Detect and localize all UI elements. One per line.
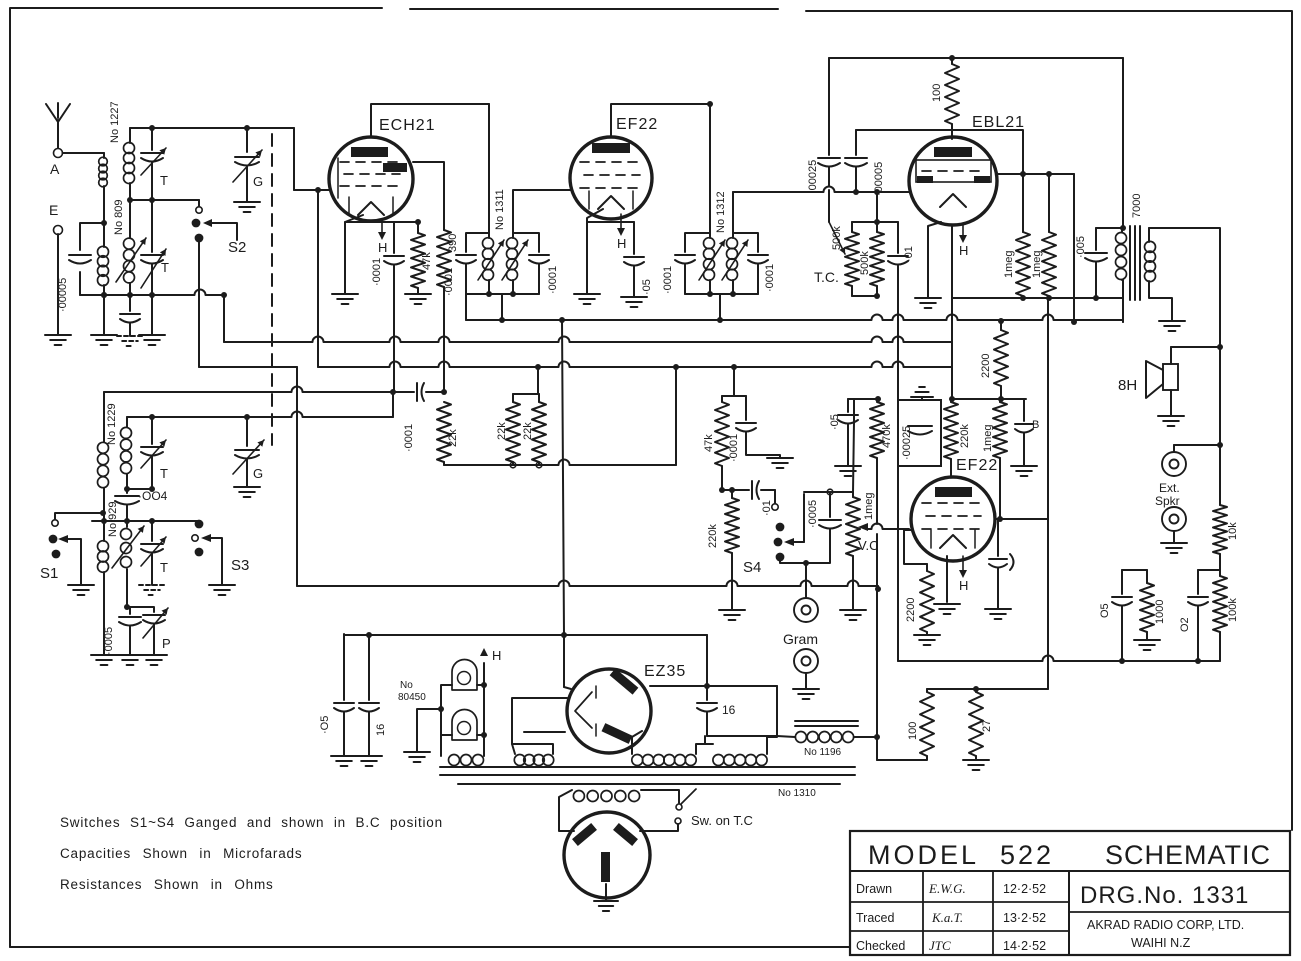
svg-text:G: G xyxy=(253,466,263,481)
bracket 500k tops xyxy=(852,221,898,223)
bus B+ y=342 xyxy=(223,295,225,342)
VC wiper arrow xyxy=(858,523,868,531)
svg-text:EF22: EF22 xyxy=(956,457,998,474)
svg-text:No 1312: No 1312 xyxy=(715,191,727,233)
svg-text:DRG.No. 1331: DRG.No. 1331 xyxy=(1080,882,1249,909)
IF No1311 primary coil (variable) xyxy=(483,238,494,249)
pilot lamp 1 xyxy=(452,660,477,691)
svg-text:O5: O5 xyxy=(1099,603,1111,618)
ground E xyxy=(45,334,71,336)
svg-text:EF22: EF22 xyxy=(616,116,658,133)
resistor 100 dial xyxy=(926,689,928,692)
resistor 390 (osc anode) xyxy=(413,162,444,230)
switch S3 contact top xyxy=(195,520,204,529)
EZ35 plates xyxy=(610,668,639,694)
svg-text:T.C.: T.C. xyxy=(814,269,839,285)
svg-text:AKRAD RADIO CORP, LTD.: AKRAD RADIO CORP, LTD. xyxy=(1087,918,1244,932)
resistor 2200 screen xyxy=(1000,323,1002,330)
ground 47k xyxy=(405,293,431,295)
EF22 cathode xyxy=(587,209,603,294)
svg-text:47k: 47k xyxy=(421,252,433,270)
capacitor 16 filter xyxy=(368,634,370,700)
capacitor .00025 grid coupling xyxy=(828,58,830,155)
svg-text:·0001: ·0001 xyxy=(371,258,383,286)
svg-text:2200: 2200 xyxy=(905,598,917,622)
svg-text:·0001: ·0001 xyxy=(662,266,674,294)
coil No1227 secondary xyxy=(129,128,131,143)
svg-text:S1: S1 xyxy=(40,565,58,582)
svg-text:ECH21: ECH21 xyxy=(379,117,436,134)
switch S1 wire xyxy=(55,513,103,519)
svg-text:8H: 8H xyxy=(1118,377,1137,394)
trimmer T stem (lower) xyxy=(151,417,153,444)
IF No1312 secondary coil (variable) xyxy=(727,238,738,249)
ground S3 xyxy=(209,584,235,586)
IF No1312 left capacitor .0001 xyxy=(685,233,710,252)
bracket y=399 output stage tops xyxy=(952,398,1026,400)
ground 1000 xyxy=(1134,639,1160,641)
capacitor .0005 (P pad) xyxy=(124,604,130,610)
wire oscillator down x=297 xyxy=(296,367,298,586)
plug earth ground xyxy=(605,884,607,901)
wire No1312 secondary to EBL21 grid xyxy=(732,192,734,233)
capacitor .05 EF22 xyxy=(587,221,634,223)
output transformer core xyxy=(1129,226,1131,300)
EZ35 plate feed left xyxy=(563,635,565,687)
capacitor .05 filter xyxy=(343,634,345,700)
bracket 500k bottoms xyxy=(852,295,877,297)
tube ECH21 xyxy=(329,137,413,221)
trimmer capacitor G (osc) xyxy=(235,156,259,158)
capacitor .00005 EBL21 xyxy=(855,130,857,155)
resistor 220k output grid xyxy=(950,399,952,402)
svg-text:Drawn: Drawn xyxy=(856,882,892,896)
switch S2 selector arrow xyxy=(203,219,212,227)
svg-text:H: H xyxy=(959,243,968,258)
wire speaker to B+ column xyxy=(1171,346,1220,348)
switch S1 contact top xyxy=(52,520,58,526)
ground .0005 xyxy=(117,654,143,656)
coil No1229 secondary xyxy=(126,417,128,427)
wire plate to output transformer xyxy=(1073,174,1075,322)
svg-text:Switches S1~S4 Ganged and sh: Switches S1~S4 Ganged and shown in B.C p… xyxy=(60,815,443,830)
resistor 10k xyxy=(1219,445,1221,505)
svg-text:·00005: ·00005 xyxy=(873,162,885,196)
resistor 1meg diode load 1 xyxy=(1016,232,1030,296)
capacitor 16 reservoir xyxy=(706,686,708,700)
wire switch to plug xyxy=(640,824,678,831)
wire screen bus down to output grid bracket xyxy=(951,342,953,399)
switch S3 contact bottom xyxy=(195,548,204,557)
ground ext spkr xyxy=(1161,542,1187,544)
svg-text:·0001: ·0001 xyxy=(728,434,740,462)
svg-text:100: 100 xyxy=(931,84,943,102)
switch S4 contact 1 xyxy=(776,523,785,532)
svg-text:·0005: ·0005 xyxy=(103,627,115,655)
title block title row line xyxy=(850,870,1290,872)
EF22 output suppressor wire xyxy=(904,530,927,564)
ground ECH21 cathode xyxy=(332,293,358,295)
EF22 output internal electrodes xyxy=(935,487,972,497)
svg-text:EBL21: EBL21 xyxy=(972,114,1025,131)
ground gram xyxy=(793,688,819,690)
ground No929 column xyxy=(91,654,117,656)
svg-text:B: B xyxy=(1032,419,1039,431)
ground .05 filter xyxy=(331,755,357,757)
rail y=465 xyxy=(444,460,676,466)
svg-text:G: G xyxy=(253,174,263,189)
padder capacitor xyxy=(129,295,131,311)
svg-text:O2: O2 xyxy=(1179,617,1191,632)
resistor 220k S4 xyxy=(731,490,733,498)
tube EF22 xyxy=(570,137,652,219)
svg-text:T: T xyxy=(160,173,168,188)
wire AVC resistor top xyxy=(848,398,878,400)
capacitor B bias xyxy=(1023,399,1025,421)
svg-text:22k: 22k xyxy=(447,429,459,447)
svg-text:·005: ·005 xyxy=(1075,236,1087,258)
ground under T2 xyxy=(151,295,153,335)
gang dashed line xyxy=(271,134,273,445)
ground .05 xyxy=(621,296,647,298)
rail y=320 component bottoms xyxy=(466,315,1123,321)
wire secondary top to B+ column xyxy=(1149,228,1220,347)
switch S2 contact top xyxy=(196,207,202,213)
ECH21 cathode wire and bracket xyxy=(345,215,363,294)
switch S3 contact mid xyxy=(192,535,198,541)
terminal E xyxy=(54,226,63,235)
EF22 internal electrodes xyxy=(592,143,630,153)
svg-text:14·2·52: 14·2·52 xyxy=(1003,939,1046,953)
trimmer capacitor T (No929) xyxy=(151,521,153,541)
IF No1312 primary coil (variable) xyxy=(704,238,715,249)
ground 16 filter xyxy=(356,755,382,757)
svg-text:H: H xyxy=(959,578,968,593)
IF No1311 right capacitor .0001 xyxy=(513,233,539,252)
IF can No1311 feed xyxy=(488,104,490,233)
svg-text:Gram: Gram xyxy=(783,631,818,647)
svg-text:P: P xyxy=(162,636,171,651)
coil No1227 primary winding xyxy=(103,153,105,158)
svg-text:No 1229: No 1229 xyxy=(106,403,118,445)
svg-text:Sw. on T.C: Sw. on T.C xyxy=(691,813,753,828)
rail 1meg bottoms xyxy=(952,297,1123,299)
HV winding leads center tap xyxy=(696,736,713,754)
capacitor .01 EBL21 xyxy=(897,222,899,253)
svg-text:·00025: ·00025 xyxy=(901,426,913,460)
wire oscillator row y=367 left xyxy=(199,366,297,368)
ground P xyxy=(141,654,167,656)
wire cathode down to choke xyxy=(776,686,778,736)
svg-text:Capacities Shown in Microfa: Capacities Shown in Microfarads xyxy=(60,846,302,861)
svg-text:1meg: 1meg xyxy=(982,424,994,452)
tube EF22 output xyxy=(911,477,995,561)
switch S4 contact 2 xyxy=(774,538,783,547)
plug pin earth xyxy=(601,852,610,882)
gram jack upper xyxy=(805,594,807,598)
wire rail465 up to bus xyxy=(675,367,677,465)
ground EF22 cathode xyxy=(574,293,600,295)
trimmer capacitor G (band osc) xyxy=(235,449,259,451)
svg-text:22k: 22k xyxy=(496,422,508,440)
wire No1311 secondary to EF22 grid xyxy=(513,190,572,233)
svg-text:V.C: V.C xyxy=(858,538,878,553)
title block column lines xyxy=(922,871,924,955)
svg-text:No 929: No 929 xyxy=(107,502,119,537)
wire VC top from AVC xyxy=(853,399,855,422)
pilot lamp bracket right xyxy=(477,685,484,735)
svg-text:·0001: ·0001 xyxy=(443,268,455,296)
wire ECH21 grid down to AVC bus xyxy=(317,190,319,367)
svg-text:E: E xyxy=(49,202,58,218)
trimmer G stem (lower) xyxy=(246,417,248,446)
IF No1312 bottom bracket xyxy=(685,293,758,295)
bracket .05/1000 tops xyxy=(1122,569,1147,571)
svg-text:27: 27 xyxy=(981,720,993,732)
wire S2 down to oscillator row xyxy=(198,242,200,367)
choke No1196 core xyxy=(795,720,858,722)
wire B+ top rail y=58 xyxy=(829,57,1123,59)
wire grid leak y=490 xyxy=(722,489,749,491)
border frame left xyxy=(9,100,11,947)
ECH21 top plate wire xyxy=(371,104,489,137)
coil No809 primary winding xyxy=(98,246,109,257)
svg-text:·OO4: ·OO4 xyxy=(138,489,168,503)
trimmer P xyxy=(127,607,154,612)
mains right lead xyxy=(641,790,679,803)
series capacitor .0001 (RF to IF) xyxy=(416,383,418,401)
svg-text:S3: S3 xyxy=(231,557,249,574)
svg-text:·01: ·01 xyxy=(903,246,915,262)
capacitor .01 S4 coupling xyxy=(751,481,753,499)
resistor 47k detector xyxy=(721,396,723,402)
heater arrow EBL21 xyxy=(962,225,964,238)
bus screen y=367 xyxy=(318,362,952,368)
wire long vertical x=564 (B+ to rectifier) xyxy=(562,320,564,635)
svg-text:1meg: 1meg xyxy=(1031,250,1043,278)
EBL21 internal electrodes xyxy=(934,147,972,157)
wire detector bracket stem xyxy=(733,367,735,396)
resistor 100k xyxy=(1213,576,1227,632)
wire top RF y=128 xyxy=(130,127,294,129)
heater arrow EF22 output xyxy=(962,556,964,573)
rail bottom y=661 xyxy=(898,656,1220,662)
capacitor box .00025 output grid xyxy=(898,400,941,466)
trimmer capacitor T (band) xyxy=(141,446,163,448)
svg-text:1meg: 1meg xyxy=(1003,250,1015,278)
HV winding 2 right lead xyxy=(767,737,777,754)
ground 220k xyxy=(719,609,745,611)
trimmer capacitor T1 xyxy=(141,152,163,154)
resistor 470k AVC xyxy=(870,402,884,458)
title block outer xyxy=(850,831,1290,955)
svg-text:H: H xyxy=(378,240,387,255)
EF22 top plate wire xyxy=(611,104,710,137)
plug pin left xyxy=(572,823,597,846)
capacitor .0005 AF xyxy=(829,492,831,517)
svg-text:A: A xyxy=(50,161,60,177)
resistor 1meg diode load 2 xyxy=(1048,174,1050,232)
IF can No1312 feed xyxy=(709,104,711,233)
heater arrow EF22 xyxy=(620,214,622,231)
IF No1311 bottom bracket xyxy=(466,293,539,295)
svg-text:Ext.: Ext. xyxy=(1159,481,1180,495)
svg-text:16: 16 xyxy=(722,703,736,717)
tube EZ35 xyxy=(567,669,651,753)
svg-text:80450: 80450 xyxy=(398,692,426,703)
bracket y=492 volume top xyxy=(804,491,853,493)
title block row lines xyxy=(850,901,1069,903)
pilot lamp bracket left xyxy=(441,685,452,756)
ground .05 AVC xyxy=(835,465,861,467)
wire to heater-dial resistors xyxy=(1047,661,1049,689)
mains primary coil No1310 xyxy=(573,791,584,802)
switch S2 contact mid xyxy=(192,219,201,228)
coil No929 primary xyxy=(98,541,109,552)
switch S1 contact mid xyxy=(49,535,58,544)
capacitor .0001 ECH21 xyxy=(393,222,395,253)
wire jack1 to column xyxy=(1174,444,1220,446)
svg-text:No 1310: No 1310 xyxy=(778,788,816,799)
B+ right column xyxy=(1219,347,1221,445)
svg-text:·0001: ·0001 xyxy=(403,424,415,452)
heater arrow supply xyxy=(480,648,488,656)
mains plug xyxy=(564,812,650,898)
EBL21 cathode line down xyxy=(951,225,953,342)
wire 16 cap to tap xyxy=(707,735,777,737)
svg-text:22k: 22k xyxy=(522,422,534,440)
border frame bottom xyxy=(10,946,850,948)
switch S4 wire in xyxy=(774,490,776,503)
svg-text:T: T xyxy=(161,260,169,275)
resistor 22k a xyxy=(512,394,514,402)
resistor 500k right xyxy=(876,222,878,232)
coil No809 secondary (variable) xyxy=(124,238,135,249)
capacitor .0001 detector xyxy=(745,396,747,420)
ground under lower G xyxy=(234,486,260,488)
tone control arrow TC xyxy=(828,190,830,222)
ground inverted above box xyxy=(921,397,923,400)
heater arrow ECH21 xyxy=(381,222,383,235)
switch S2 contact bottom xyxy=(195,234,204,243)
svg-text:·00025: ·00025 xyxy=(807,160,819,194)
wire 22k pair to screen bus xyxy=(537,367,539,394)
resistor 27 bias xyxy=(975,689,977,692)
resistor 1000 xyxy=(1146,570,1148,583)
HV winding 1 lead xyxy=(632,731,642,754)
IF No1312 right capacitor .0001 xyxy=(733,233,758,252)
coil No1229 primary xyxy=(103,392,105,442)
gram jack lower xyxy=(794,649,818,673)
svg-text:500k: 500k xyxy=(859,251,871,275)
resistor 22k screen feed xyxy=(437,402,451,462)
ground transformer secondary xyxy=(1159,320,1185,322)
wire y=200 grid row xyxy=(130,199,199,201)
svg-text:220k: 220k xyxy=(959,424,971,448)
IF No1311 left capacitor .0001 xyxy=(466,233,489,252)
svg-text:E.W.G.: E.W.G. xyxy=(928,881,966,896)
border frame top-left segment xyxy=(10,8,382,120)
svg-text:WAIHI N.Z: WAIHI N.Z xyxy=(1131,936,1191,950)
ext spkr jack 2 xyxy=(1162,507,1186,531)
wire RF line y=392 xyxy=(104,387,414,393)
svg-text:12·2·52: 12·2·52 xyxy=(1003,882,1046,896)
wire A to coil xyxy=(63,152,105,154)
svg-text:No 1196: No 1196 xyxy=(804,747,842,758)
svg-text:H: H xyxy=(492,648,501,663)
switch S1 contact bottom xyxy=(52,550,61,559)
capacitor .00005 bracket xyxy=(80,223,104,295)
trimmer G stem xyxy=(246,128,248,152)
svg-text:T: T xyxy=(160,560,168,575)
svg-text:·O5: ·O5 xyxy=(319,716,331,734)
trimmer T1 stem xyxy=(151,128,153,150)
svg-text:·0001: ·0001 xyxy=(547,266,559,294)
svg-text:JTC: JTC xyxy=(929,938,951,953)
pilot lamp 2 xyxy=(452,710,477,741)
svg-text:16: 16 xyxy=(375,724,387,736)
wire y=489 No1229 bottom xyxy=(127,488,152,490)
volume control 1meg VC xyxy=(846,497,860,556)
wire .00005 top to diode line xyxy=(856,130,1023,174)
svg-text:No: No xyxy=(400,680,413,691)
border frame top-middle segment xyxy=(410,8,778,10)
ground tone capacitor xyxy=(985,608,1011,610)
wire EF22 output right vertical xyxy=(1047,298,1049,519)
svg-text:H: H xyxy=(617,236,626,251)
resistor 500k left (tone) xyxy=(851,222,853,232)
ground pilot lamps xyxy=(417,709,441,752)
ground speaker xyxy=(1170,390,1172,416)
filament winding xyxy=(514,755,525,766)
resistor 1meg output xyxy=(999,399,1001,402)
svg-text:470k: 470k xyxy=(881,424,893,448)
wire AVC down to choke xyxy=(876,589,878,737)
svg-text:SCHEMATIC: SCHEMATIC xyxy=(1105,840,1271,870)
ground capacitor B xyxy=(1011,465,1037,467)
svg-text:MODEL: MODEL xyxy=(868,840,979,870)
EF22 output plate wire xyxy=(995,518,1048,520)
svg-text:522: 522 xyxy=(1000,840,1054,870)
wire S4 bottom to gram xyxy=(780,561,806,594)
svg-text:Checked: Checked xyxy=(856,939,905,953)
mains left lead xyxy=(559,790,574,831)
choke No1196 xyxy=(777,736,795,737)
trimmer capacitor T2 xyxy=(151,200,153,252)
wire RF top to ECH21 grid xyxy=(293,128,295,190)
svg-text:·0005: ·0005 xyxy=(807,500,819,528)
HV winding 2 xyxy=(713,755,724,766)
svg-text:T: T xyxy=(160,466,168,481)
speaker 8H xyxy=(1170,347,1172,364)
resistor 22k b xyxy=(538,394,540,402)
tone capacitor on plate xyxy=(997,519,999,556)
switch S3 selector arrow xyxy=(201,534,211,542)
ground 27 xyxy=(963,759,989,761)
ground under G xyxy=(234,201,260,203)
wire E down xyxy=(57,234,59,335)
EZ35 cathode wire xyxy=(650,685,777,687)
coil No929 secondary (variable) xyxy=(121,529,132,540)
svg-text:·00005: ·00005 xyxy=(57,278,69,312)
svg-text:S4: S4 xyxy=(743,559,761,576)
output transformer secondary xyxy=(1148,228,1150,242)
EBL21 cathode ground xyxy=(928,222,941,298)
resistor 47k ECH21 xyxy=(417,222,419,233)
AVC bus y=586 xyxy=(297,581,878,587)
terminal A xyxy=(54,149,63,158)
tube EBL21 xyxy=(909,137,997,225)
